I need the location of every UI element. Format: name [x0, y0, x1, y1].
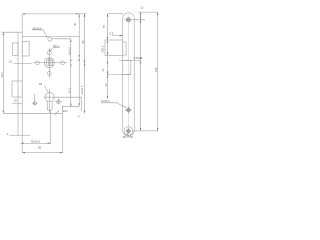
svg-text:32±0.1: 32±0.1	[80, 85, 84, 94]
svg-text:Ø10: Ø10	[63, 110, 68, 113]
svg-text:3.6±0.6: 3.6±0.6	[101, 99, 110, 103]
svg-text:6.5±0.5: 6.5±0.5	[134, 56, 143, 60]
svg-text:21.5: 21.5	[67, 88, 71, 94]
svg-text:3.5: 3.5	[109, 32, 114, 36]
svg-text:12: 12	[140, 6, 144, 10]
svg-text:28: 28	[39, 82, 43, 86]
svg-text:55: 55	[102, 24, 106, 28]
svg-text:85: 85	[38, 146, 42, 150]
svg-text:103: 103	[0, 72, 4, 77]
svg-text:20: 20	[14, 99, 18, 103]
svg-text:235: 235	[154, 67, 158, 72]
svg-text:30: 30	[104, 83, 108, 87]
svg-text:Ø20.5: Ø20.5	[101, 45, 104, 52]
svg-text:99: 99	[81, 40, 85, 44]
svg-text:12: 12	[9, 60, 13, 64]
svg-text:Ø8.1: Ø8.1	[53, 45, 59, 48]
svg-text:45: 45	[73, 22, 77, 26]
svg-text:50±0.5: 50±0.5	[31, 139, 40, 143]
svg-text:Ø18x4: Ø18x4	[33, 26, 42, 30]
svg-text:45±0.5: 45±0.5	[67, 47, 71, 55]
